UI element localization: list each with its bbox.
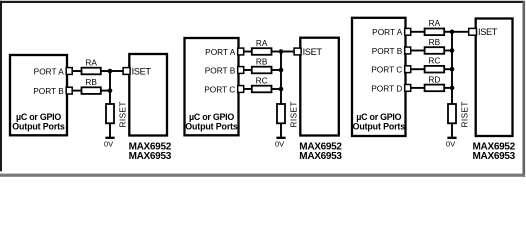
svg-text:RB: RB <box>85 77 97 87</box>
wire PORT B pin to resistor RB (circuit 2) <box>244 69 252 71</box>
pin tab PORT A (circuit 3) <box>405 28 411 35</box>
ISET bus vertical wire (circuit 1) <box>109 71 111 105</box>
svg-text:RA: RA <box>256 38 268 48</box>
junction dot node ISET bus / RD (circuit 3) <box>450 86 455 91</box>
part number label MAX6952 / MAX6953 (circuit 1) <box>129 142 172 162</box>
svg-text:PORT A: PORT A <box>205 47 236 57</box>
wire PORT B pin to resistor RB (circuit 1) <box>72 90 81 92</box>
wire resistor RB to ISET bus (circuit 2) <box>272 69 283 71</box>
svg-text:RC: RC <box>428 56 440 66</box>
ISET pin tab (circuit 3) <box>469 28 477 35</box>
wire resistor RA to ISET bus (circuit 3) <box>444 31 453 33</box>
svg-text:RB: RB <box>429 37 441 47</box>
wire PORT C pin to resistor RC (circuit 2) <box>244 88 252 90</box>
svg-text:Output Ports: Output Ports <box>185 121 238 131</box>
wire resistor RC to ISET bus (circuit 3) <box>444 68 453 70</box>
junction dot node ISET bus / RA (circuit 3) <box>450 30 455 35</box>
junction dot node ISET bus / RB (circuit 2) <box>279 68 284 73</box>
ISET pin tab (circuit 1) <box>123 68 130 75</box>
svg-text:PORT C: PORT C <box>371 65 402 75</box>
resistor RISET (circuit 2) <box>277 104 285 123</box>
resistor RB (circuit 2) <box>252 67 272 74</box>
0V ground terminal bar (circuit 1) <box>105 137 114 139</box>
resistor RD (circuit 3) <box>425 85 445 92</box>
svg-text:RB: RB <box>256 56 268 66</box>
svg-text:PORT B: PORT B <box>372 46 403 56</box>
svg-text:RISET: RISET <box>461 101 470 127</box>
junction dot node ISET bus / RC (circuit 3) <box>450 67 455 72</box>
svg-text:MAX6953: MAX6953 <box>299 151 342 162</box>
wire RISET to 0V terminal (circuit 3) <box>451 123 453 137</box>
wire resistor RA to ISET bus (circuit 1) <box>101 70 111 72</box>
driver chip box MAX6952/MAX6953 (circuit 2) <box>300 38 339 136</box>
driver chip box MAX6952/MAX6953 (circuit 1) <box>129 54 167 136</box>
0V ground terminal bar (circuit 3) <box>447 137 456 139</box>
junction dot node ISET bus / RA (circuit 1) <box>108 69 113 74</box>
wire RISET to 0V terminal (circuit 1) <box>109 123 111 137</box>
svg-text:ISET: ISET <box>303 47 323 57</box>
svg-text:0V: 0V <box>446 140 456 149</box>
wire resistor RA to ISET bus (circuit 2) <box>272 51 283 53</box>
driver chip box MAX6952/MAX6953 (circuit 3) <box>476 19 513 137</box>
microcontroller box U3 "uC or GPIO Output Ports" <box>185 38 239 135</box>
ISET pin tab (circuit 2) <box>294 48 301 55</box>
ISET bus vertical wire (circuit 2) <box>280 52 282 106</box>
svg-text:ISET: ISET <box>132 66 152 76</box>
svg-text:PORT B: PORT B <box>33 86 64 96</box>
wire ISET bus to ISET pin (circuit 1) <box>110 70 123 72</box>
svg-text:PORT C: PORT C <box>204 84 235 94</box>
svg-text:MAX6953: MAX6953 <box>473 151 516 162</box>
svg-text:ISET: ISET <box>478 27 498 37</box>
pin tab PORT A (circuit 1) <box>66 68 72 75</box>
svg-text:RA: RA <box>85 57 97 67</box>
svg-text:RA: RA <box>429 18 441 28</box>
junction dot node ISET bus / RB (circuit 3) <box>450 48 455 53</box>
junction dot node ISET bus / RA (circuit 2) <box>279 49 284 54</box>
pin tab PORT B (circuit 2) <box>238 67 244 74</box>
resistor RB (circuit 1) <box>82 87 101 94</box>
pin tab PORT B (circuit 1) <box>66 87 72 94</box>
svg-text:RC: RC <box>256 75 268 85</box>
resistor RA (circuit 2) <box>252 48 272 55</box>
resistor RISET (circuit 3) <box>448 104 456 123</box>
svg-text:RD: RD <box>428 74 440 84</box>
svg-text:RISET: RISET <box>119 101 128 127</box>
pin tab PORT D (circuit 3) <box>405 85 411 92</box>
wire PORT A pin to resistor RA (circuit 2) <box>244 51 252 53</box>
pin tab PORT B (circuit 3) <box>405 47 411 54</box>
part number label MAX6952 / MAX6953 (circuit 3) <box>473 142 516 162</box>
0V ground terminal bar (circuit 2) <box>276 137 285 139</box>
wire RISET to 0V terminal (circuit 2) <box>280 123 282 137</box>
resistor RB (circuit 3) <box>425 47 445 54</box>
ISET bus vertical wire (circuit 3) <box>451 32 453 105</box>
resistor RC (circuit 3) <box>425 66 445 73</box>
wire PORT C pin to resistor RC (circuit 3) <box>411 68 425 70</box>
wire PORT B pin to resistor RB (circuit 3) <box>411 50 425 52</box>
svg-text:MAX6953: MAX6953 <box>129 151 172 162</box>
svg-text:PORT A: PORT A <box>34 66 65 76</box>
svg-text:PORT B: PORT B <box>205 65 236 75</box>
figure frame left border <box>0 1 2 172</box>
resistor RA (circuit 3) <box>425 29 445 36</box>
wire resistor RD to ISET bus (circuit 3) <box>444 87 453 89</box>
pin tab PORT C (circuit 3) <box>405 66 411 73</box>
wire ISET bus to ISET pin (circuit 2) <box>281 51 294 53</box>
svg-text:Output Ports: Output Ports <box>353 121 406 131</box>
wire PORT A pin to resistor RA (circuit 3) <box>411 31 425 33</box>
wire resistor RB to ISET bus (circuit 3) <box>444 50 453 52</box>
wire resistor RB to ISET bus (circuit 1) <box>101 90 111 92</box>
figure frame bottom border <box>0 174 525 177</box>
figure frame top border <box>0 1 524 3</box>
wire ISET bus to ISET pin (circuit 3) <box>452 31 469 33</box>
svg-text:RISET: RISET <box>290 101 299 127</box>
resistor RA (circuit 1) <box>82 68 101 75</box>
svg-text:0V: 0V <box>104 140 114 149</box>
resistor RISET (circuit 1) <box>106 104 114 123</box>
wire PORT A pin to resistor RA (circuit 1) <box>72 70 81 72</box>
pin tab PORT A (circuit 2) <box>238 48 244 55</box>
svg-text:Output Ports: Output Ports <box>12 121 65 131</box>
junction dot node ISET bus / RB (circuit 1) <box>108 88 113 93</box>
wire PORT D pin to resistor RD (circuit 3) <box>411 87 425 89</box>
figure frame right border <box>523 1 526 177</box>
microcontroller box U5 "uC or GPIO Output Ports" <box>352 18 406 136</box>
pin tab PORT C (circuit 2) <box>238 86 244 93</box>
svg-text:0V: 0V <box>275 140 285 149</box>
svg-text:PORT D: PORT D <box>371 83 402 93</box>
svg-text:PORT A: PORT A <box>372 27 403 37</box>
part number label MAX6952 / MAX6953 (circuit 2) <box>299 142 342 162</box>
junction dot node ISET bus / RC (circuit 2) <box>279 87 284 92</box>
microcontroller box U1 "uC or GPIO Output Ports" <box>10 55 67 135</box>
wire resistor RC to ISET bus (circuit 2) <box>272 88 283 90</box>
resistor RC (circuit 2) <box>252 86 272 93</box>
